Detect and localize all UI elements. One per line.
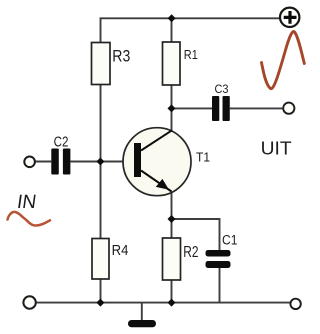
wire C2 to base of transistor [70, 161, 123, 163]
resistor R4 [92, 239, 109, 280]
svg-text:R4: R4 [112, 243, 129, 259]
junction node bottom rail / R4 [96, 299, 104, 307]
wire C1 upper lead [219, 218, 221, 250]
wire ground stem [141, 303, 143, 320]
wire R4 to bottom rail [100, 279, 102, 303]
sine squiggle IN [8, 212, 51, 226]
capacitor C2 [51, 149, 59, 175]
wire emitter to emitter node to R2 [171, 192, 173, 238]
svg-text:C2: C2 [54, 134, 69, 151]
transistor emitter arrowhead [156, 179, 169, 190]
ground [128, 320, 156, 327]
resistor R3 [92, 43, 111, 85]
transistor emitter line [141, 171, 172, 192]
transistor collector line [141, 130, 172, 150]
wire R1 to collector node [171, 85, 173, 132]
svg-text:UIT: UIT [261, 139, 292, 159]
terminal bottom left [23, 296, 35, 308]
junction node top rail / R1 [168, 14, 176, 22]
svg-text:R2: R2 [183, 244, 198, 261]
svg-text:R3: R3 [112, 47, 130, 66]
junction node bottom rail / R2 [168, 299, 176, 307]
capacitor C3 [212, 96, 219, 121]
svg-text:C1: C1 [222, 233, 238, 248]
svg-text:C3: C3 [215, 84, 229, 96]
terminal supply plus [280, 8, 299, 27]
wire R2 to bottom rail [171, 280, 173, 303]
junction node collector / C3 [168, 104, 176, 112]
svg-text:T1: T1 [196, 150, 210, 165]
wire emitter node to C1 [172, 218, 220, 220]
svg-text:R1: R1 [184, 47, 198, 62]
transistor base bar [134, 143, 141, 177]
wire bottom rail [36, 302, 290, 304]
resistor R2 [163, 238, 181, 280]
junction node emitter / C1 [168, 215, 176, 223]
wire collector node to C3 [172, 107, 213, 109]
plus sign [284, 11, 297, 24]
sine squiggle UIT [262, 32, 305, 89]
resistor R1 [163, 42, 181, 85]
wire top rail to R1 [171, 17, 173, 42]
terminal output [283, 103, 294, 114]
wire C1 lower lead to bottom rail [219, 268, 221, 303]
svg-text:IN: IN [16, 192, 38, 213]
wire R3 to base node to R4 [100, 85, 102, 239]
wire C3 to output terminal [230, 107, 282, 109]
wire top rail [101, 17, 281, 19]
capacitor C1 [206, 250, 231, 257]
junction node base [96, 158, 104, 166]
wire input terminal to C2 [35, 161, 51, 163]
terminal bottom right [290, 299, 300, 309]
transistor T1 circle [123, 128, 191, 196]
terminal input [24, 157, 35, 168]
wire top rail to R3 [100, 17, 102, 42]
